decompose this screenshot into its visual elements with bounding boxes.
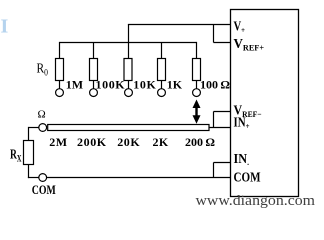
IC box U1: [231, 10, 299, 197]
svg-text:20K: 20K: [117, 135, 140, 149]
terminal node ohm: [39, 124, 47, 132]
svg-text:200 Ω: 200 Ω: [185, 135, 215, 149]
wiper double arrow: [193, 100, 201, 124]
value label 100K: [96, 78, 126, 92]
wire stub R3 top / V+ riser: [128, 25, 130, 60]
resistor 1M body: [56, 59, 64, 81]
resistor 100K body: [90, 59, 98, 81]
label RX: [10, 147, 22, 164]
svg-text:10K: 10K: [133, 78, 156, 92]
pin label VREF+: [234, 36, 265, 53]
wire COM horizontal (to box): [47, 177, 231, 179]
resistor 100ohm body: [193, 59, 201, 81]
value label 100ohm: [200, 78, 230, 92]
value label 1K: [167, 78, 183, 92]
wire stub R1 top: [59, 42, 61, 59]
terminal node 10K: [125, 89, 133, 97]
pin label IN+: [234, 115, 250, 132]
wire VREF- horizontal: [214, 111, 231, 113]
wire R2 bottom stub: [93, 81, 95, 89]
wire V+ horizontal: [128, 24, 231, 26]
svg-text:100K: 100K: [96, 78, 126, 92]
wire VREF- fork vertical: [213, 112, 215, 128]
watermark www.diangon.com: [196, 193, 316, 209]
svg-text:I: I: [1, 16, 9, 38]
terminal node 100K: [90, 89, 98, 97]
wire VREF+ drop vertical: [213, 25, 215, 43]
terminal node 100ohm: [193, 89, 201, 97]
value label 1M: [66, 78, 83, 92]
svg-text:2M: 2M: [49, 135, 67, 149]
pin label V+: [234, 19, 246, 36]
svg-text:1K: 1K: [167, 78, 183, 92]
wire IN. horizontal: [214, 162, 231, 164]
wire VREF+ horizontal: [214, 42, 231, 44]
slide-wire bar: [48, 125, 209, 131]
svg-text:Ω: Ω: [38, 109, 46, 121]
wire RX top vertical: [28, 127, 30, 141]
wire ohm terminal left: [29, 127, 39, 129]
resistor RX body: [24, 141, 34, 165]
range label 200K: [77, 135, 107, 149]
range label 200ohm: [185, 135, 215, 149]
value label 10K: [133, 78, 156, 92]
wire top bus: [60, 42, 197, 44]
svg-text:COM: COM: [32, 183, 56, 197]
pin label IN.: [234, 151, 250, 167]
terminal node 1M: [56, 89, 64, 97]
wire stub R5 top: [196, 42, 198, 59]
terminal node COM: [39, 174, 47, 182]
range label 2K: [153, 135, 169, 149]
svg-text:200K: 200K: [77, 135, 107, 149]
resistor 1K body: [158, 59, 166, 81]
svg-text:2K: 2K: [153, 135, 169, 149]
wire IN+ horizontal (bar to box): [209, 127, 231, 129]
terminal node 1K: [158, 89, 166, 97]
watermark I (pale blue): [1, 16, 9, 38]
label ohm (above left terminal): [38, 109, 46, 121]
svg-text:1M: 1M: [66, 78, 83, 92]
label COM (terminal): [32, 183, 56, 197]
range label 20K: [117, 135, 140, 149]
wire R4 bottom stub: [161, 81, 163, 89]
wire R1 bottom stub: [59, 81, 61, 89]
resistor 10K body: [124, 59, 132, 81]
pin label COM (box): [234, 170, 261, 185]
wire stub R4 top: [161, 43, 163, 60]
svg-text:IN.: IN.: [234, 151, 250, 167]
wire stub R2 top: [93, 43, 95, 60]
wire IN. fork vertical: [213, 163, 215, 178]
svg-text:www.diangon.com: www.diangon.com: [196, 193, 316, 209]
svg-text:100 Ω: 100 Ω: [200, 78, 230, 92]
label R0: [37, 61, 49, 78]
range label 2M: [49, 135, 67, 149]
svg-text:COM: COM: [234, 170, 261, 185]
wire R3 bottom stub: [128, 81, 130, 89]
pin label VREF-: [234, 103, 262, 120]
wire COM bottom left stub: [28, 177, 39, 179]
wire RX bottom vertical: [28, 165, 30, 179]
wire R5 bottom stub: [196, 81, 198, 89]
